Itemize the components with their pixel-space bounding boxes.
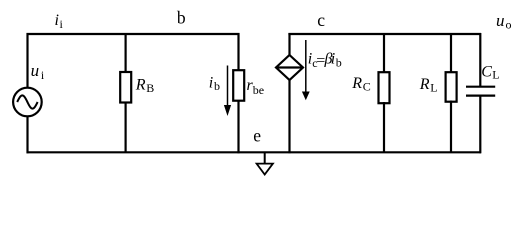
resistor RC (379, 72, 390, 103)
wire RL branch upper (450, 34, 452, 73)
ground triangle (257, 164, 273, 175)
source U1 sine (17, 95, 37, 108)
svg-text:e: e (253, 126, 261, 146)
svg-text:c: c (317, 10, 325, 30)
wire RL branch lower (450, 101, 452, 153)
wire RC branch lower (383, 102, 385, 152)
svg-text:i: i (60, 17, 64, 31)
wire rbe branch upper (237, 33, 239, 71)
ground stem (264, 152, 266, 164)
wire right rail c (288, 33, 481, 35)
svg-text:u: u (31, 61, 39, 80)
wire top-left rail b (27, 33, 240, 35)
svg-text:R: R (419, 76, 430, 93)
dependent source diamond bar (276, 66, 303, 68)
svg-text:b: b (214, 79, 220, 93)
resistor RL (446, 72, 457, 102)
dependent source diamond (276, 55, 303, 80)
wire diamond lower (288, 79, 290, 153)
capacitor CL bottom plate (466, 94, 495, 96)
svg-text:B: B (146, 81, 154, 95)
wire CL branch lower (479, 96, 481, 154)
wire rbe branch lower (237, 100, 239, 153)
svg-text:be: be (253, 83, 264, 97)
svg-text:b: b (336, 56, 342, 70)
svg-text:L: L (492, 67, 499, 81)
svg-text:C: C (363, 79, 371, 93)
svg-text:i: i (41, 68, 45, 82)
svg-text:o: o (506, 18, 512, 32)
wire source branch lower (26, 117, 28, 154)
current arrow i_b (227, 66, 229, 108)
svg-text:u: u (496, 11, 505, 30)
svg-text:L: L (430, 81, 437, 95)
wire source branch upper (26, 33, 28, 88)
wire RC branch upper (383, 34, 385, 73)
source U1 circle (13, 88, 42, 117)
svg-text:i: i (209, 74, 213, 91)
wire bottom rail (27, 151, 482, 153)
capacitor CL top plate (466, 86, 495, 88)
svg-text:R: R (351, 75, 362, 92)
svg-text:C: C (481, 63, 492, 80)
current arrow i_c (305, 40, 307, 93)
wire RB branch lower (124, 102, 126, 152)
resistor rbe (233, 70, 244, 101)
svg-text:b: b (177, 8, 186, 28)
wire RB branch upper (124, 34, 126, 73)
svg-text:i: i (55, 12, 59, 29)
svg-text:i: i (331, 50, 335, 67)
svg-text:R: R (135, 77, 146, 94)
wire CL branch upper (479, 33, 481, 87)
resistor RB (120, 72, 131, 103)
wire source branch to diamond (288, 33, 290, 56)
